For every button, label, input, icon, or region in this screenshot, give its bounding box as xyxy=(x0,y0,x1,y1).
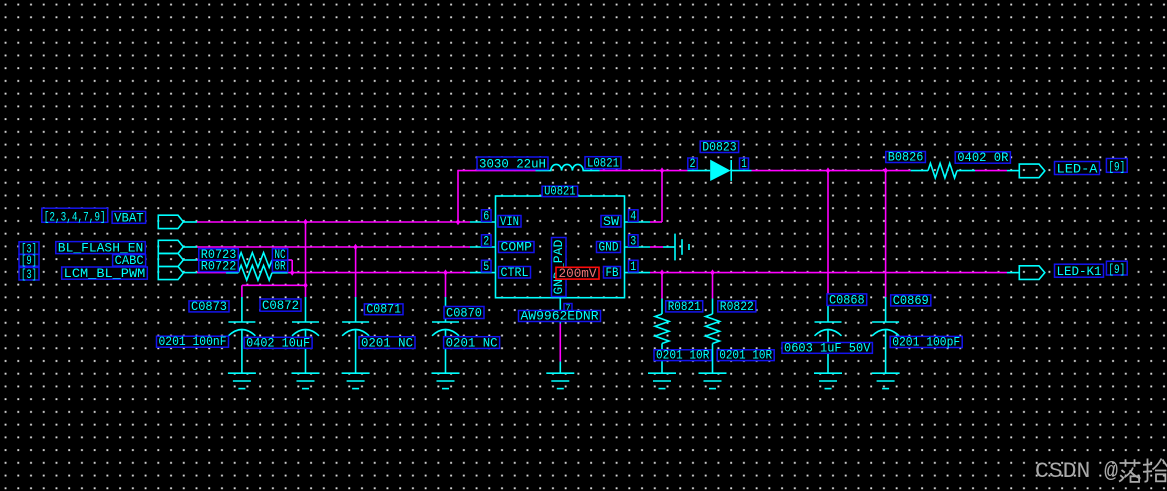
wire CABC to R0723 xyxy=(197,259,226,261)
label NC xyxy=(272,247,287,262)
pin number 6 xyxy=(482,209,492,223)
svg-text:[9]: [9] xyxy=(21,253,37,268)
svg-text:R0722: R0722 xyxy=(201,259,237,274)
svg-text:1: 1 xyxy=(630,260,636,274)
ground C0871 xyxy=(342,373,370,388)
junction top rail/C0868 xyxy=(826,167,830,173)
label 0201 NC (C0871) xyxy=(359,335,415,350)
ground C0872 xyxy=(292,373,320,388)
pin 6 VIN stub xyxy=(470,221,496,223)
svg-text:1: 1 xyxy=(741,157,747,171)
svg-text:[9]: [9] xyxy=(1108,262,1125,277)
wire drop to C0872 xyxy=(305,222,307,298)
pin name VIN xyxy=(498,214,521,229)
net label LED-K1 xyxy=(1055,264,1104,279)
pin name SW xyxy=(601,214,621,229)
ground pin 7 xyxy=(546,362,574,389)
label GND_PAD (vertical) xyxy=(551,238,566,297)
watermark CSDN @落拾 xyxy=(1035,458,1167,484)
svg-text:[9]: [9] xyxy=(1108,159,1125,174)
wire R0723 output jog xyxy=(288,260,293,273)
node reference [9] CABC xyxy=(19,253,39,268)
svg-text:0201 10R: 0201 10R xyxy=(656,348,710,363)
svg-text:2: 2 xyxy=(483,234,489,248)
pin 2 COMP stub xyxy=(470,246,496,248)
wire drop to C0869 xyxy=(885,171,887,298)
label B0826 xyxy=(886,150,926,165)
svg-text:VIN: VIN xyxy=(500,214,519,229)
label C0873 xyxy=(189,299,229,314)
pin name CTRL xyxy=(499,265,531,280)
resistor R0821 xyxy=(655,299,669,374)
svg-text:0603 1uF 50V: 0603 1uF 50V xyxy=(784,340,871,355)
junction VBAT/VIN riser xyxy=(456,219,460,225)
pin number 3 xyxy=(629,234,639,248)
junction BL_FLASH_EN/C0871 xyxy=(353,244,357,250)
label 0201 10R (R0821) xyxy=(654,348,711,363)
wire top rail inductor-to-diode xyxy=(600,170,688,172)
svg-text:2: 2 xyxy=(690,157,696,171)
diode pin number 2 xyxy=(688,157,698,171)
net label LED-A xyxy=(1055,162,1100,177)
wire R0822 top lead xyxy=(712,273,714,299)
port LCM_BL_PWM xyxy=(158,267,197,280)
diode pin number 1 xyxy=(740,157,749,171)
label D0823 xyxy=(700,140,738,155)
label L0821 xyxy=(585,156,621,171)
svg-text:3030 22uH: 3030 22uH xyxy=(479,157,546,172)
pin name COMP xyxy=(499,240,535,255)
diode D0823 xyxy=(688,160,752,181)
svg-text:LED-K1: LED-K1 xyxy=(1057,264,1102,279)
wire FB row xyxy=(650,272,1007,274)
svg-text:CTRL: CTRL xyxy=(501,265,529,280)
label R0723 xyxy=(199,247,239,262)
svg-text:C0870: C0870 xyxy=(446,306,482,321)
label R0821 xyxy=(666,299,703,314)
wire R0821 top lead xyxy=(661,273,663,299)
port VBAT xyxy=(158,215,197,228)
op-amp U1 body (IC U0821 box) xyxy=(496,196,625,298)
node reference [3] LCM xyxy=(19,267,39,282)
svg-text:R0822: R0822 xyxy=(720,299,754,314)
pin number 5 xyxy=(482,260,492,274)
wire CTRL row xyxy=(288,272,470,274)
node reference [9] LED-A xyxy=(1106,159,1127,175)
label AW9962EDNR xyxy=(519,309,601,324)
svg-text:[3]: [3] xyxy=(21,267,37,282)
label C0868 xyxy=(827,292,867,307)
svg-text:0402 0R: 0402 0R xyxy=(957,150,1008,165)
wire jog to C0873 xyxy=(242,285,306,297)
svg-text:5: 5 xyxy=(483,260,489,274)
pin number 7 xyxy=(564,303,572,313)
wire drop to C0868 xyxy=(827,171,829,298)
label C0871 xyxy=(364,302,403,317)
label C0872 xyxy=(260,298,301,313)
label C0870 xyxy=(444,306,484,321)
ground R0821 xyxy=(648,373,676,388)
ground R0822 xyxy=(699,373,727,388)
svg-text:GND: GND xyxy=(599,240,619,255)
capacitor C0870 xyxy=(432,297,459,373)
pin number 1 xyxy=(629,260,639,274)
junction FB/R0821 xyxy=(660,269,664,275)
pin number 4 xyxy=(629,209,639,223)
junction top rail/SW xyxy=(660,167,664,173)
resistor B0826 xyxy=(911,163,975,178)
wire GND_PAD pin 7 drop xyxy=(559,324,561,362)
label 0603 1uF 50V xyxy=(782,340,872,355)
label U0821 xyxy=(542,184,578,199)
svg-text:4: 4 xyxy=(630,209,636,223)
wire top rail diode-to-LED-A xyxy=(752,170,911,172)
resistor R0822 xyxy=(706,299,720,374)
svg-text:6: 6 xyxy=(483,209,489,223)
svg-text:FB: FB xyxy=(606,265,619,280)
label 0201 10R (R0822) xyxy=(717,348,774,363)
svg-text:C0869: C0869 xyxy=(893,293,929,308)
svg-text:D0823: D0823 xyxy=(702,140,736,155)
ground C0870 xyxy=(432,373,460,388)
svg-text:0R: 0R xyxy=(274,259,285,274)
wire GND pin stub xyxy=(650,246,663,248)
wire drop to C0870 xyxy=(445,273,447,298)
label 0402 10uF xyxy=(244,335,312,350)
ground C0868 xyxy=(814,373,842,388)
junction CTRL/C0870 xyxy=(443,269,447,275)
net label BL_FLASH_EN xyxy=(56,241,146,256)
svg-text:200mV: 200mV xyxy=(559,266,597,281)
wire VBAT riser to inductor xyxy=(457,170,459,222)
svg-text:AW9962EDNR: AW9962EDNR xyxy=(521,309,599,324)
svg-text:0201 100nF: 0201 100nF xyxy=(159,334,227,349)
pin 1 FB stub xyxy=(625,272,651,274)
svg-text:CSDN @: CSDN @ xyxy=(1035,458,1119,484)
label 0R xyxy=(272,259,287,274)
junction FB/R0822 xyxy=(710,269,714,275)
label 0201 NC (C0870) xyxy=(444,335,500,350)
port CABC xyxy=(158,253,197,266)
wire LCM_BL_PWM to R0722 xyxy=(197,272,226,274)
net label LCM_BL_PWM xyxy=(62,266,148,281)
svg-text:B0826: B0826 xyxy=(888,150,924,165)
resistor R0722 xyxy=(226,265,288,280)
wire BL_FLASH_EN to COMP xyxy=(197,246,470,248)
svg-text:C0871: C0871 xyxy=(366,302,401,317)
svg-text:LCM_BL_PWM: LCM_BL_PWM xyxy=(64,266,146,281)
svg-text:0201 10R: 0201 10R xyxy=(719,348,772,363)
svg-text:VBAT: VBAT xyxy=(114,210,144,225)
capacitor C0873 xyxy=(228,297,255,373)
svg-text:C0873: C0873 xyxy=(191,299,227,314)
svg-text:0201 NC: 0201 NC xyxy=(446,335,498,350)
node reference [3] BL xyxy=(19,241,39,256)
svg-text:C0868: C0868 xyxy=(829,292,865,307)
svg-text:L0821: L0821 xyxy=(587,156,619,171)
wire VBAT horizontal xyxy=(197,221,470,223)
label 200mV (red) xyxy=(556,266,599,281)
label 0402 0R xyxy=(955,150,1010,165)
junction C0873 jog xyxy=(303,282,307,288)
svg-text:SW: SW xyxy=(603,214,619,229)
svg-text:0201 100pF: 0201 100pF xyxy=(892,335,960,350)
port BL_FLASH_EN xyxy=(158,240,197,253)
node reference [2,3,4,7,9] xyxy=(42,208,108,224)
inductor L0821 xyxy=(536,164,600,170)
svg-text:C0872: C0872 xyxy=(262,298,299,313)
svg-text:COMP: COMP xyxy=(501,240,533,255)
junction top rail/C0869 xyxy=(883,167,887,173)
net label CABC xyxy=(113,253,146,268)
pin 4 SW stub xyxy=(625,221,651,223)
label C0869 xyxy=(891,293,931,308)
pin name GND xyxy=(597,240,621,255)
svg-text:3: 3 xyxy=(630,234,636,248)
node reference [9] LED-K1 xyxy=(1106,261,1127,277)
label R0822 xyxy=(718,299,756,314)
junction R0723-R0722 output xyxy=(290,269,294,275)
svg-text:R0821: R0821 xyxy=(668,299,701,314)
capacitor C0872 xyxy=(292,297,319,373)
label 3030 22uH xyxy=(477,157,548,172)
port LED-K1 xyxy=(1007,266,1045,280)
svg-text:0201 NC: 0201 NC xyxy=(361,335,413,350)
svg-text:U0821: U0821 xyxy=(544,184,576,199)
ground C0869 xyxy=(872,373,900,388)
wire SW drop xyxy=(650,171,662,222)
label 0201 100nF xyxy=(157,334,229,349)
ground (pin 3 GND, rotated) xyxy=(663,234,689,261)
label 0201 100pF xyxy=(890,335,962,350)
pin 5 CTRL stub xyxy=(470,272,496,274)
wire top rail left segment xyxy=(458,170,536,172)
net label VBAT xyxy=(112,210,146,225)
pin 3 GND stub xyxy=(625,246,651,248)
pin name FB xyxy=(604,265,621,280)
svg-text:0402 10uF: 0402 10uF xyxy=(246,335,310,350)
pin number 2 xyxy=(482,234,492,248)
svg-text:[2,3,4,7,9]: [2,3,4,7,9] xyxy=(44,209,106,224)
pin 7 GND_PAD stub xyxy=(559,298,561,324)
svg-text:LED-A: LED-A xyxy=(1057,162,1098,177)
wire drop to C0871 xyxy=(355,247,357,298)
capacitor C0871 xyxy=(342,297,369,373)
resistor R0723 xyxy=(226,253,288,268)
ground C0873 xyxy=(228,373,256,388)
label R0722 xyxy=(199,259,239,274)
capacitor C0869 xyxy=(872,297,899,373)
port LED-A xyxy=(1007,164,1045,178)
capacitor C0868 xyxy=(815,297,842,373)
junction VBAT/C0872 xyxy=(303,219,307,225)
wire top rail after B0826 xyxy=(975,170,1007,172)
